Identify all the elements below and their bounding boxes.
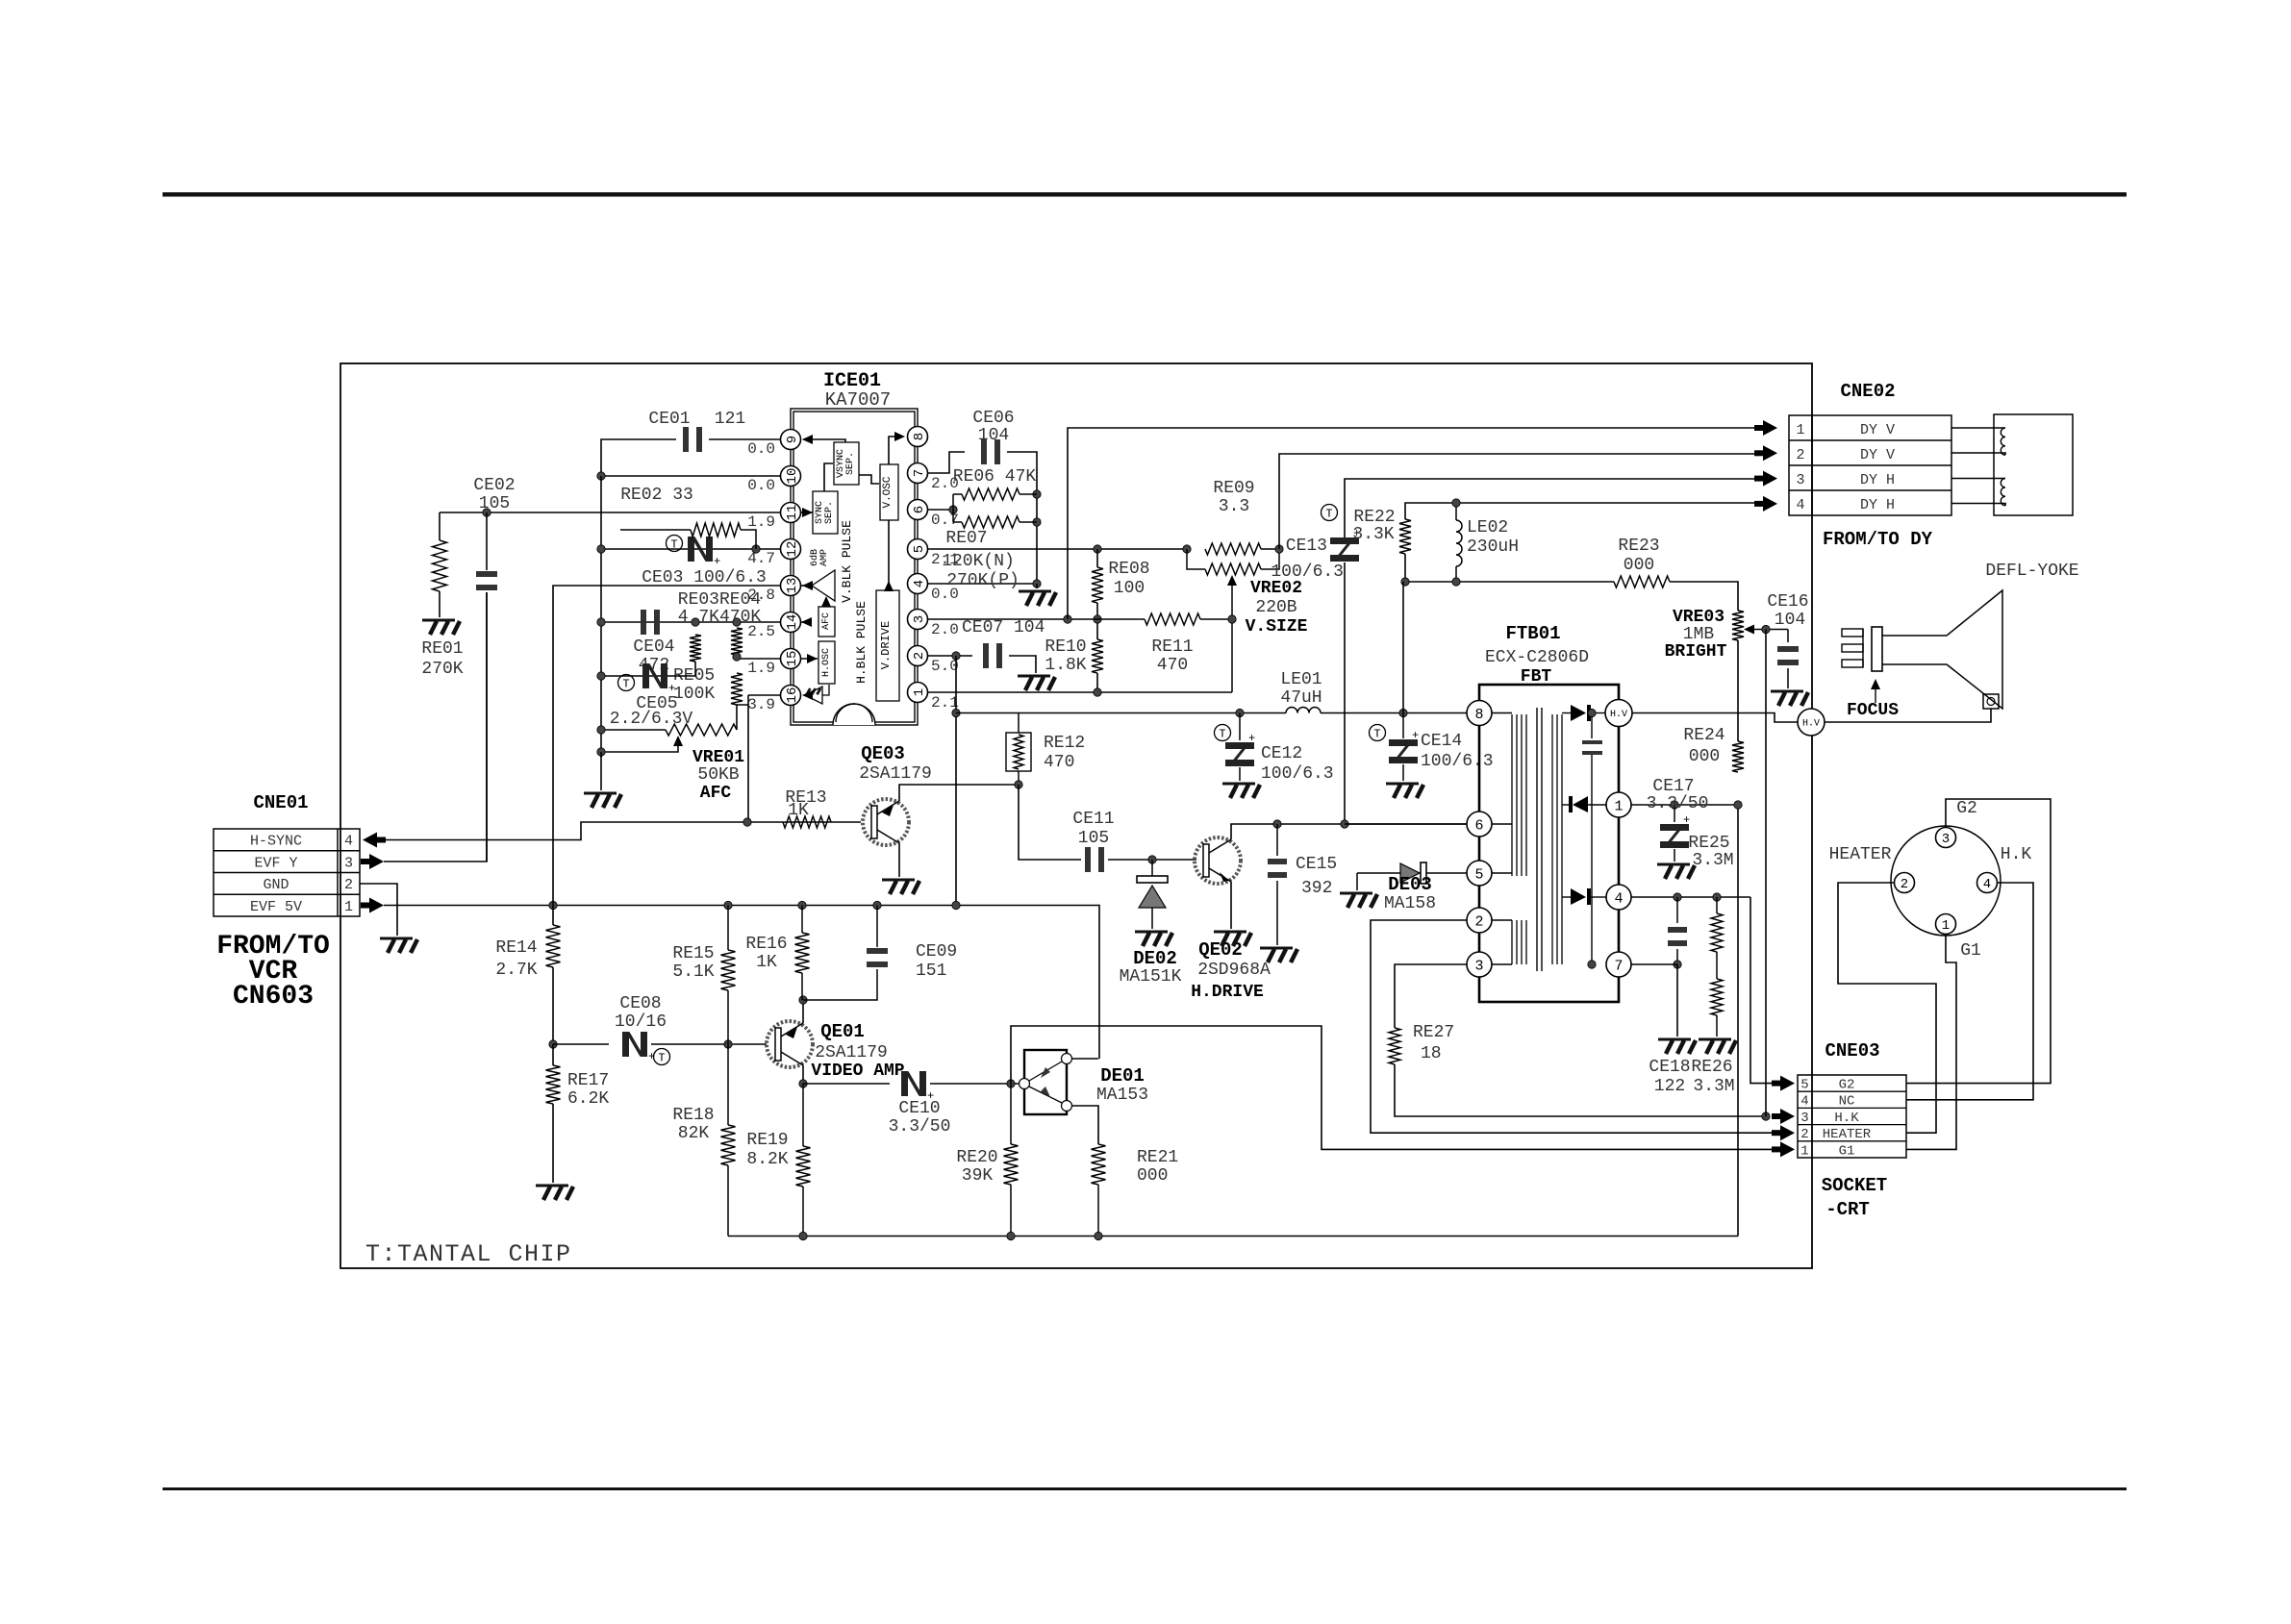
- wire AFC up: [825, 598, 827, 607]
- pin 9 voltage 0.0: [747, 440, 775, 458]
- svg-text:RE26: RE26: [1691, 1058, 1732, 1077]
- arrowhead VDRIVE in: [884, 581, 894, 591]
- svg-text:1MB: 1MB: [1683, 625, 1715, 644]
- junction: [597, 545, 605, 553]
- wire to CE11: [1019, 785, 1081, 860]
- svg-text:RE15: RE15: [672, 944, 714, 963]
- capacitor CE13: [1330, 527, 1360, 562]
- svg-text:230uH: 230uH: [1467, 537, 1519, 557]
- arrowhead pin16: [802, 690, 813, 700]
- capacitor CE16: [1777, 630, 1799, 689]
- svg-text:5.1K: 5.1K: [672, 962, 714, 982]
- wire RE23 to VRE03: [1670, 582, 1738, 611]
- svg-text:4: 4: [912, 580, 927, 587]
- ground CNE01: [380, 938, 417, 953]
- label QE02 type 2SD968A: [1197, 961, 1271, 980]
- label RE22: [1353, 508, 1395, 527]
- pin 3 voltage 2.0: [931, 621, 959, 638]
- label RE16 value 1K: [756, 953, 777, 972]
- label QE03: [861, 743, 905, 764]
- label RE26 value 3.3M: [1693, 1077, 1734, 1096]
- junction: [733, 653, 741, 661]
- T mark CE13: [1322, 505, 1338, 521]
- svg-text:0.0: 0.0: [747, 477, 775, 494]
- svg-text:CE03 100/6.3: CE03 100/6.3: [642, 568, 767, 587]
- svg-text:5.0: 5.0: [931, 658, 959, 675]
- resistor RE15: [721, 906, 736, 1045]
- label RE17 value 6.2K: [567, 1089, 609, 1109]
- junction: [597, 748, 605, 756]
- arrow CNE02 row1: [1754, 420, 1777, 436]
- wire DY-V2 from VRE02: [1279, 454, 1754, 549]
- ground DE02: [1135, 932, 1172, 946]
- svg-text:LE01: LE01: [1280, 670, 1322, 689]
- svg-text:FTB01: FTB01: [1505, 623, 1560, 644]
- svg-text:CE16: CE16: [1767, 592, 1808, 612]
- wire V.OSC to V.DRIVE: [888, 520, 890, 590]
- svg-text:RE21: RE21: [1137, 1148, 1178, 1167]
- label RE16: [745, 935, 787, 954]
- wire QE02 collector: [1231, 824, 1467, 839]
- svg-text:3: 3: [1796, 472, 1804, 488]
- svg-text:DY H: DY H: [1860, 497, 1895, 513]
- ground CE15: [1260, 948, 1297, 962]
- svg-text:G2: G2: [1839, 1078, 1855, 1093]
- svg-text:V.OSC: V.OSC: [882, 476, 894, 508]
- FBT pin 4: [1606, 885, 1631, 910]
- wire pin5 row: [928, 548, 1187, 550]
- svg-text:H.V: H.V: [1610, 710, 1627, 720]
- IC pin 16: [781, 686, 801, 706]
- pin 2 voltage 5.0: [931, 658, 959, 675]
- svg-text:3.3K: 3.3K: [1352, 525, 1394, 544]
- label RE12 value 470: [1044, 753, 1074, 772]
- svg-text:2.2/6.3V: 2.2/6.3V: [610, 710, 693, 729]
- ground RE26: [1699, 1039, 1736, 1054]
- IC pin 3: [908, 610, 928, 630]
- label RE20 value 39K: [962, 1166, 994, 1186]
- resistor RE06: [953, 488, 1037, 522]
- label CE06 value 104: [978, 426, 1009, 445]
- svg-text:+: +: [668, 682, 675, 695]
- wire pin12 row: [601, 548, 781, 550]
- wire yoke 2: [1951, 453, 2005, 455]
- svg-text:3.3M: 3.3M: [1693, 1077, 1734, 1096]
- label BRIGHT: [1665, 642, 1727, 662]
- svg-text:100/6.3: 100/6.3: [1261, 764, 1334, 784]
- svg-text:2: 2: [912, 652, 927, 660]
- FBT pin 1: [1606, 792, 1631, 817]
- wire RE14 to CE08 node: [552, 967, 554, 1044]
- resistor RE09: [1205, 543, 1261, 555]
- capacitor CE14: [1389, 713, 1419, 782]
- wire DE01 pin2 down: [1071, 1106, 1098, 1144]
- focus arrow: [1871, 679, 1880, 703]
- svg-text:+: +: [1248, 732, 1255, 745]
- label VRE02: [1250, 579, 1302, 598]
- label LE01: [1280, 670, 1322, 689]
- wire GND row: [360, 884, 397, 936]
- wire pin1 row FBT: [1631, 804, 1738, 806]
- H.OSC out triangle pin16: [805, 685, 829, 704]
- node H.V left: [1798, 709, 1825, 736]
- arrowhead SYNC in: [802, 508, 813, 517]
- label CE08: [619, 994, 661, 1013]
- capacitor CE03: [688, 537, 720, 568]
- arrowhead pin8: [894, 432, 905, 441]
- resistor RE04: [731, 628, 743, 655]
- svg-text:SEP.: SEP.: [824, 501, 835, 524]
- wire H-SYNC: [384, 822, 747, 840]
- IC pin 2: [908, 646, 928, 666]
- svg-text:G1: G1: [1839, 1143, 1855, 1159]
- label VRE01 value 50KB: [697, 765, 739, 785]
- svg-text:470: 470: [1044, 753, 1074, 772]
- transformer FTB01 box: [1479, 685, 1619, 1002]
- capacitor CE04: [641, 610, 660, 635]
- svg-text:CE15: CE15: [1296, 855, 1337, 874]
- FBT pin 6: [1467, 812, 1492, 837]
- svg-text:HEATER: HEATER: [1823, 1127, 1872, 1142]
- capacitor CE18: [1668, 897, 1687, 964]
- junction: [1094, 615, 1101, 623]
- wire DE01 pin3 up: [1071, 1058, 1098, 1060]
- capacitor CE12: [1225, 713, 1255, 782]
- label RE18 value 82K: [678, 1124, 710, 1143]
- label QE01 type 2SA1179: [815, 1043, 888, 1062]
- label RE08 value 100: [1114, 579, 1145, 598]
- label RE08: [1108, 560, 1149, 579]
- junction: [1713, 893, 1721, 901]
- wire QE01 emitter: [802, 1000, 804, 1023]
- label 4.7K 470K: [678, 608, 762, 627]
- connector CNE01: [214, 829, 360, 916]
- wire VSYNC to V.OSC: [859, 475, 879, 484]
- wire EVF-Y: [384, 592, 487, 862]
- label RE26: [1691, 1058, 1732, 1077]
- svg-text:RE02 33: RE02 33: [620, 486, 693, 505]
- IC label ICE01: [823, 370, 881, 392]
- IC pin 10: [781, 466, 801, 487]
- label RE10 value 1.8K: [1045, 656, 1086, 675]
- label CE09: [916, 942, 957, 962]
- svg-text:2: 2: [1796, 447, 1804, 463]
- svg-text:6.2K: 6.2K: [567, 1089, 609, 1109]
- svg-text:270K(P): 270K(P): [946, 571, 1020, 590]
- svg-text:EVF 5V: EVF 5V: [250, 899, 302, 915]
- arrow CNE03 row5: [1772, 1076, 1795, 1091]
- svg-text:DY V: DY V: [1860, 422, 1895, 438]
- svg-text:82K: 82K: [678, 1124, 710, 1143]
- IC pin 15: [781, 649, 801, 669]
- junction: [799, 1232, 807, 1239]
- wire pin15 row: [737, 658, 781, 660]
- label DE03 type MA158: [1384, 894, 1436, 913]
- wire amp to pin13: [801, 585, 812, 587]
- label DE01 type MA153: [1096, 1086, 1148, 1105]
- junction: [1452, 578, 1460, 586]
- wire CE07 gnd: [1009, 656, 1036, 673]
- capacitor CE15: [1268, 824, 1287, 945]
- wire pin2 row: [928, 655, 972, 657]
- svg-text:1.9: 1.9: [747, 513, 775, 531]
- junction: [1674, 961, 1681, 968]
- svg-text:DY V: DY V: [1860, 447, 1895, 463]
- svg-text:105: 105: [1078, 829, 1109, 848]
- svg-text:1K: 1K: [756, 953, 777, 972]
- label RE07 value 270K(P): [946, 571, 1020, 590]
- resistor RE20: [1004, 1084, 1019, 1237]
- svg-text:CNE02: CNE02: [1840, 381, 1895, 402]
- wire QE03 collector: [898, 843, 900, 877]
- wire CE08 row: [553, 1043, 609, 1045]
- arrowhead pin9: [802, 435, 813, 444]
- pin 4 voltage 0.0: [931, 586, 959, 603]
- wire DY-H2 from RE22: [1405, 503, 1754, 519]
- capacitor CE02: [476, 512, 497, 862]
- ground CE12: [1222, 784, 1260, 798]
- wire RE17 to gnd: [552, 1104, 554, 1183]
- svg-text:NC: NC: [1839, 1094, 1855, 1110]
- svg-text:8: 8: [1474, 707, 1483, 723]
- label RE23: [1618, 537, 1659, 556]
- svg-text:CE13: CE13: [1286, 537, 1327, 556]
- VRE01 wiper: [601, 736, 683, 752]
- svg-text:AFC: AFC: [821, 612, 832, 630]
- wire pin16 column: [747, 695, 749, 705]
- svg-text:CE07 104: CE07 104: [962, 618, 1045, 637]
- label CE05 value 2.2/6.3V: [610, 710, 693, 729]
- label RE05: [673, 666, 715, 686]
- capacitor CE10: [901, 1071, 934, 1103]
- resistor RE23: [1614, 576, 1670, 587]
- SYNC SEP block: [813, 491, 838, 534]
- svg-text:3: 3: [344, 855, 353, 871]
- svg-text:39K: 39K: [962, 1166, 994, 1186]
- diode FBT pin4: [1562, 888, 1606, 905]
- label CE18: [1649, 1058, 1690, 1077]
- label VCR: [249, 957, 298, 987]
- label CE07 104: [962, 618, 1045, 637]
- label DE01: [1100, 1065, 1145, 1087]
- arrowhead pin13: [802, 581, 813, 590]
- svg-text:G1: G1: [1960, 941, 1981, 961]
- junction: [549, 901, 557, 909]
- VSYNC SEP block: [834, 442, 859, 485]
- svg-text:DE02: DE02: [1133, 948, 1177, 969]
- potentiometer VRE03: [1732, 611, 1744, 640]
- svg-text:DY H: DY H: [1860, 472, 1895, 488]
- junction: [752, 545, 760, 553]
- FBT pin 2: [1467, 908, 1492, 933]
- svg-text:4: 4: [1796, 497, 1804, 513]
- wire VRE03 to RE24: [1737, 640, 1739, 741]
- V.DRIVE block: [876, 590, 899, 701]
- wire RE11 right: [1200, 618, 1232, 620]
- wire pin7 to CE06: [928, 452, 965, 473]
- svg-text:2: 2: [1800, 1127, 1808, 1142]
- label RE19: [746, 1131, 788, 1150]
- svg-text:000: 000: [1137, 1166, 1168, 1186]
- svg-text:1.9: 1.9: [747, 660, 775, 677]
- diode FBT HV: [1562, 705, 1605, 721]
- svg-text:5: 5: [912, 545, 927, 553]
- svg-text:270K: 270K: [421, 660, 463, 679]
- svg-text:47uH: 47uH: [1280, 688, 1322, 708]
- capacitor CE01: [683, 427, 702, 452]
- svg-text:2SD968A: 2SD968A: [1197, 961, 1271, 980]
- junction: [724, 1040, 732, 1048]
- svg-text:AMP: AMP: [819, 549, 830, 566]
- svg-text:RE25: RE25: [1688, 834, 1729, 853]
- label RE22 value 3.3K: [1352, 525, 1394, 544]
- wire HK route: [1906, 883, 2033, 1100]
- svg-text:CE14: CE14: [1421, 732, 1462, 751]
- ground CE16: [1771, 691, 1808, 706]
- junction: [799, 996, 807, 1004]
- junction: [949, 506, 957, 513]
- label G1: [1960, 941, 1981, 961]
- FBT core: [1537, 708, 1542, 971]
- svg-text:RE10: RE10: [1045, 637, 1086, 657]
- CRT socket pin 4: [1977, 873, 1998, 893]
- resistor RE17: [546, 1065, 561, 1104]
- svg-text:15: 15: [785, 651, 800, 667]
- arrowhead AFC up: [821, 596, 831, 607]
- label RE27 value 18: [1421, 1044, 1442, 1063]
- focus connector prongs: [1842, 629, 1863, 667]
- label CE17 value 3.3/50: [1647, 794, 1709, 813]
- svg-text:H.V: H.V: [1802, 719, 1820, 730]
- svg-text:RE20: RE20: [956, 1148, 997, 1167]
- resistor RE22: [1399, 519, 1411, 554]
- label RE07: [945, 529, 987, 548]
- svg-text:T: T: [622, 678, 629, 691]
- wire RE05 corner down: [737, 705, 748, 822]
- svg-text:1.8K: 1.8K: [1045, 656, 1086, 675]
- wire G1 route: [1906, 934, 1956, 1149]
- svg-text:7: 7: [912, 469, 927, 477]
- label FOCUS: [1847, 701, 1899, 720]
- resistor RE25: [1711, 897, 1723, 952]
- svg-text:50KB: 50KB: [697, 765, 739, 785]
- label RE11: [1151, 637, 1193, 657]
- label RE21 value 000: [1137, 1166, 1168, 1186]
- label RE12: [1044, 734, 1085, 753]
- wire VRE01 row: [601, 729, 666, 731]
- svg-text:3: 3: [1474, 958, 1483, 974]
- wire RE05 to VRE01: [736, 705, 738, 730]
- svg-text:T: T: [1219, 728, 1225, 741]
- resistor RE08: [1092, 567, 1103, 603]
- svg-text:RE19: RE19: [746, 1131, 788, 1150]
- junction: [952, 901, 960, 909]
- svg-text:CE18: CE18: [1649, 1058, 1690, 1077]
- junction: [1273, 820, 1281, 828]
- label RE13: [785, 788, 826, 808]
- label V.SIZE: [1246, 617, 1308, 637]
- junction: [1452, 499, 1460, 507]
- resistor RE12: [1006, 713, 1031, 786]
- svg-text:VIDEO AMP: VIDEO AMP: [811, 1062, 904, 1081]
- pin 5 voltage 2.1: [931, 551, 959, 568]
- label VRE02 value 220B: [1255, 598, 1297, 617]
- svg-text:14: 14: [785, 614, 800, 631]
- label RE01 value 270K: [421, 660, 463, 679]
- label DE03: [1388, 874, 1432, 895]
- junction: [1094, 545, 1101, 553]
- yoke H coil: [2001, 479, 2005, 506]
- junction: [1007, 1080, 1015, 1087]
- CRT socket pin 1: [1936, 914, 1956, 935]
- resistor RE27: [1389, 1028, 1400, 1064]
- label CE16: [1767, 592, 1808, 612]
- svg-text:100/6.3: 100/6.3: [1271, 562, 1344, 582]
- wire RE08 tail2: [1096, 603, 1098, 639]
- svg-text:DE01: DE01: [1100, 1065, 1145, 1087]
- svg-text:CE02: CE02: [473, 476, 515, 495]
- label V.BLK PULSE: [840, 520, 854, 603]
- wire FBT pin2 row: [1371, 920, 1777, 1133]
- svg-text:3.3/50: 3.3/50: [1647, 794, 1709, 813]
- label VRE03 value 1MB: [1683, 625, 1715, 644]
- label DE02 type MA151K: [1120, 967, 1182, 987]
- capacitor CE07: [983, 643, 1002, 668]
- potentiometer VRE01: [666, 724, 737, 736]
- wire FBT pin3 row: [1395, 964, 1467, 1028]
- label QE01: [820, 1021, 865, 1042]
- pin 7 voltage 2.0: [931, 475, 959, 492]
- svg-text:QE03: QE03: [861, 743, 905, 764]
- svg-text:V.DRIVE: V.DRIVE: [879, 621, 893, 669]
- label CE03 100/6.3: [642, 568, 767, 587]
- svg-text:RE08: RE08: [1108, 560, 1149, 579]
- wire CE06 right: [927, 452, 1037, 584]
- label CE02: [473, 476, 515, 495]
- svg-text:121: 121: [715, 410, 745, 429]
- ground RE01: [422, 620, 460, 635]
- CRT socket pin 3: [1936, 828, 1956, 848]
- svg-text:QE01: QE01: [820, 1021, 865, 1042]
- svg-text:RE24: RE24: [1683, 726, 1725, 745]
- diode DE01: [1020, 1050, 1072, 1114]
- svg-text:MA158: MA158: [1384, 894, 1436, 913]
- svg-text:CE12: CE12: [1261, 744, 1302, 763]
- svg-text:SEP.: SEP.: [845, 452, 856, 475]
- svg-text:2.7K: 2.7K: [495, 961, 537, 980]
- label H.K: [2001, 845, 2032, 864]
- connector CNE02: [1789, 415, 1951, 515]
- IC pin 6: [908, 500, 928, 520]
- svg-text:13: 13: [785, 578, 800, 594]
- capacitor CE09: [803, 906, 888, 1001]
- label CE15: [1296, 855, 1337, 874]
- svg-text:ECX-C2806D: ECX-C2806D: [1485, 648, 1589, 667]
- wire G1 from DE01: [1011, 1026, 1773, 1149]
- pin 11 voltage 1.9: [747, 513, 775, 531]
- svg-text:1: 1: [1800, 1143, 1808, 1159]
- svg-text:VRE01: VRE01: [692, 748, 744, 767]
- wire CE18 gnd col: [1676, 964, 1678, 1037]
- wire LE01 to pin8: [1321, 712, 1467, 714]
- junction: [1228, 615, 1236, 623]
- label RE01: [421, 639, 463, 659]
- svg-text:3: 3: [1800, 1111, 1808, 1126]
- wire supply row: [956, 712, 1286, 714]
- svg-text:2: 2: [1474, 913, 1483, 930]
- wire pin9 row: [709, 438, 781, 440]
- wire RE10 tail: [1096, 673, 1098, 692]
